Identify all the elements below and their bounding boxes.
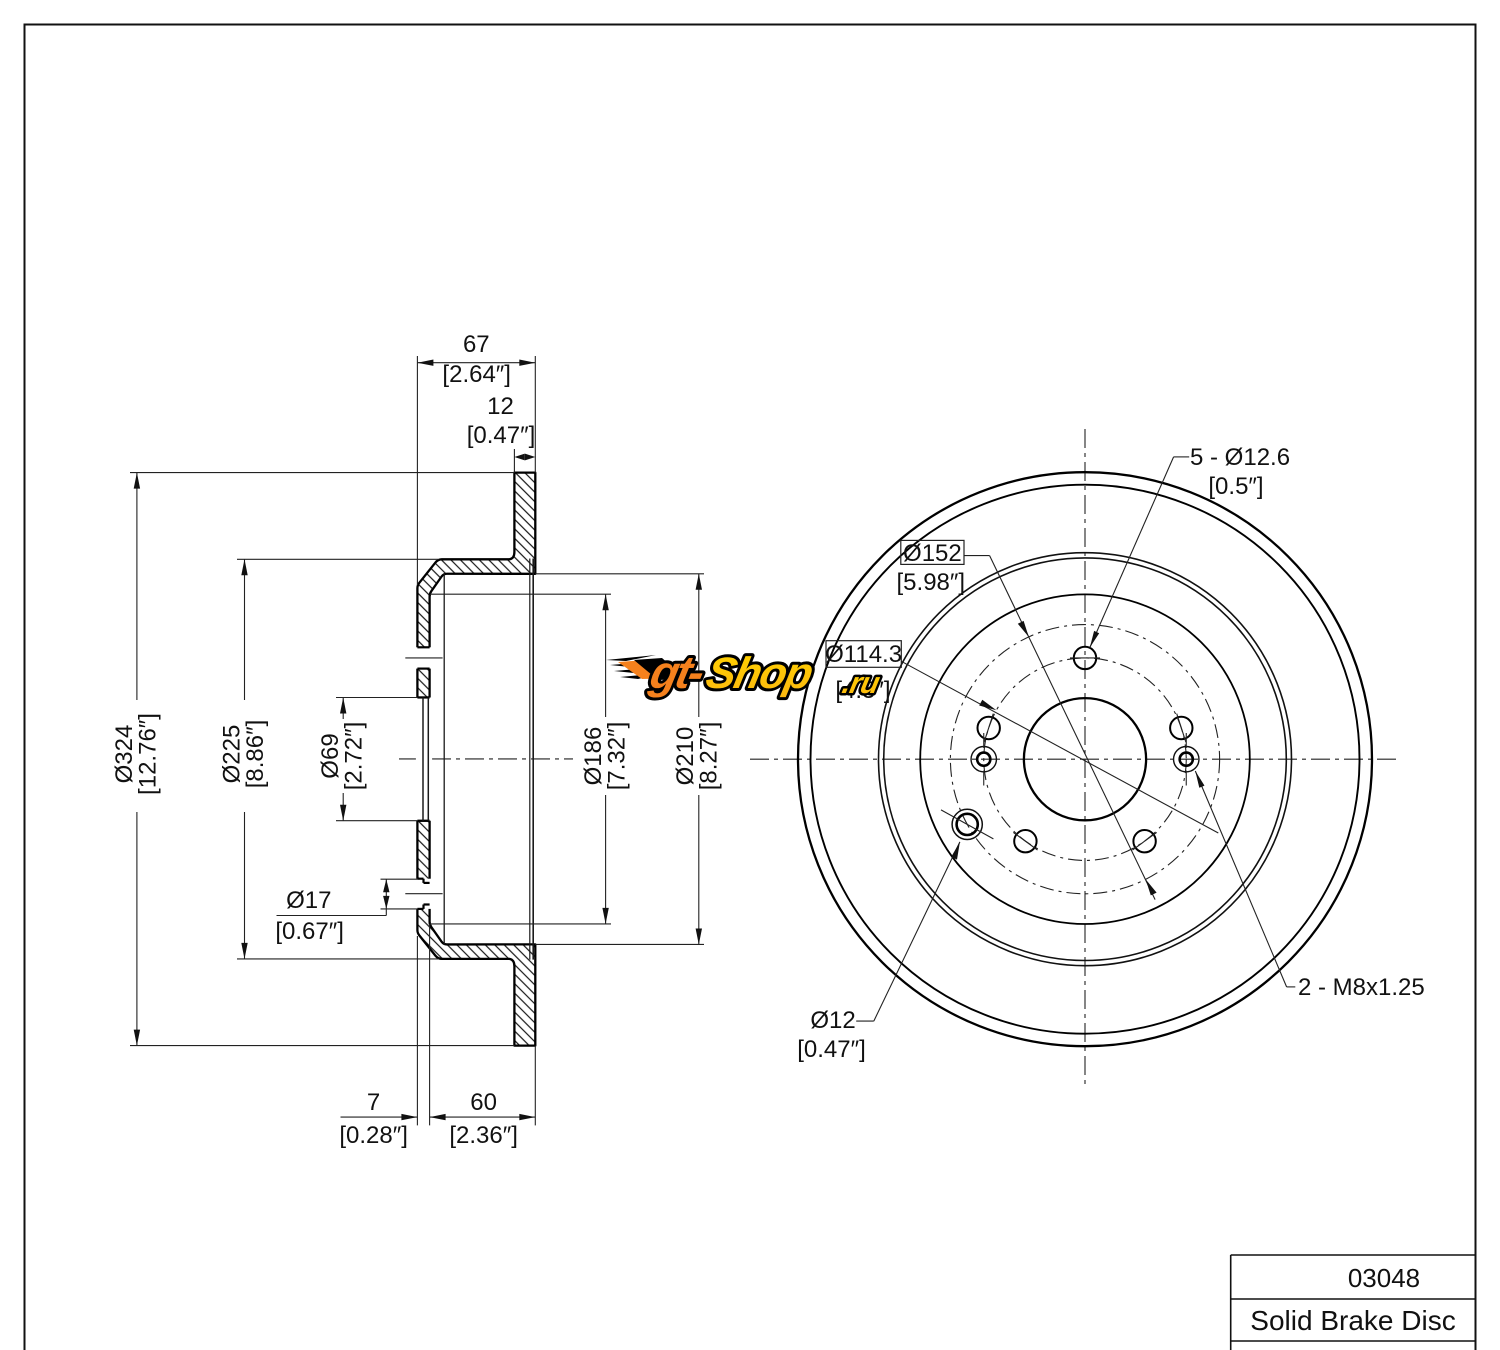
hat drum inner corner circle (projected)	[443, 574, 445, 945]
center bore Ø69	[1024, 698, 1146, 820]
hat knee circle Ø186	[920, 594, 1250, 924]
speed lines	[606, 655, 662, 679]
dim 324 line	[136, 473, 138, 700]
recess circle A	[879, 553, 1292, 966]
dim 17 line + leader	[385, 879, 387, 915]
dim 69 line	[342, 698, 344, 720]
svg-text:5 - Ø12.6: 5 - Ø12.6	[1190, 444, 1290, 471]
dim 210 extension lines	[535, 573, 704, 575]
counterbored hole Ø12/Ø17	[952, 809, 982, 839]
section centerline	[399, 758, 573, 760]
lug hole center ticks	[984, 658, 1186, 850]
outer diameter circle	[798, 472, 1372, 1046]
dim Ø114.3 leader and line	[826, 641, 1218, 833]
disc right face recess lines	[530, 559, 533, 960]
M8 hole left	[971, 733, 996, 786]
dim 324 extension lines	[130, 472, 514, 474]
dim 210 line	[698, 574, 700, 717]
label 2-M8x1.25	[1195, 771, 1295, 987]
dim text 67	[275, 331, 535, 1149]
svg-text:Shop: Shop	[702, 649, 817, 697]
dim 225 extension lines	[237, 558, 439, 560]
center bore gap in section	[416, 698, 432, 821]
svg-text:[2.64″]: [2.64″]	[442, 361, 511, 388]
dim 17 extension lines	[381, 878, 418, 880]
arrowheads for section dims	[134, 360, 702, 1121]
dim 186 extension lines	[430, 593, 611, 595]
svg-text:12: 12	[487, 393, 514, 420]
M8 hole right	[1174, 733, 1199, 786]
svg-text:[0.67″]: [0.67″]	[275, 918, 344, 945]
svg-text:60: 60	[470, 1089, 497, 1116]
dim 186 line	[605, 594, 607, 717]
svg-text:.ru: .ru	[839, 667, 882, 700]
svg-text:67: 67	[463, 331, 490, 358]
front view centerlines	[750, 429, 1400, 1089]
svg-text:[5.98″]: [5.98″]	[897, 569, 966, 596]
svg-text:[0.47″]: [0.47″]	[797, 1036, 866, 1063]
svg-text:[0.47″]: [0.47″]	[467, 422, 536, 449]
dim Ø152 leader and line	[901, 540, 1155, 899]
svg-text:Ø324[12.76″]: Ø324[12.76″]	[111, 713, 162, 795]
hat+ring section upper half (hatched)	[417, 473, 535, 698]
bolt circle Ø152	[950, 625, 1219, 894]
dim 67 line	[417, 362, 535, 364]
svg-text:[2.36″]: [2.36″]	[449, 1122, 518, 1149]
title block	[1231, 1255, 1476, 1350]
dim 225 line	[244, 559, 246, 700]
svg-text:[0.28″]: [0.28″]	[339, 1122, 408, 1149]
bottom dims extension lines	[416, 936, 418, 1125]
outer chamfer circle	[811, 485, 1360, 1034]
gt-shop.ru watermark logo	[606, 646, 887, 699]
label Ø12	[856, 842, 960, 1021]
dim 69 extension lines	[336, 697, 417, 699]
svg-text:Ø225[8.86″]: Ø225[8.86″]	[219, 720, 270, 789]
dim 60 line	[430, 1116, 536, 1118]
svg-text:Ø152: Ø152	[903, 540, 962, 567]
svg-text:2 - M8x1.25: 2 - M8x1.25	[1298, 974, 1425, 1001]
dim 12 extension	[513, 449, 515, 473]
svg-text:7: 7	[367, 1089, 380, 1116]
svg-text:Ø12: Ø12	[810, 1007, 855, 1034]
label 5-Ø12.6	[1090, 457, 1189, 648]
lug holes Ø12.6	[978, 647, 1193, 853]
dim 67 extension lines	[416, 356, 418, 585]
rotated dim texts	[111, 713, 723, 795]
svg-text:Ø186[7.32″]: Ø186[7.32″]	[580, 722, 631, 791]
counterbored hole in section (lower flange)	[405, 879, 442, 909]
svg-text:[0.5″]: [0.5″]	[1208, 473, 1263, 500]
svg-text:Ø210[8.27″]: Ø210[8.27″]	[672, 722, 723, 791]
recess circle B	[884, 558, 1287, 961]
bolt circle Ø114.3	[984, 658, 1187, 861]
svg-text:Ø17: Ø17	[286, 887, 331, 914]
svg-text:03048: 03048	[1348, 1263, 1420, 1293]
svg-text:Solid Brake Disc: Solid Brake Disc	[1250, 1305, 1455, 1336]
hat+ring section lower half (hatched)	[417, 821, 535, 1046]
svg-text:Ø114.3: Ø114.3	[825, 641, 902, 668]
lug bolt hole in section (upper flange)	[405, 647, 442, 668]
dim 7 line	[341, 1116, 418, 1118]
